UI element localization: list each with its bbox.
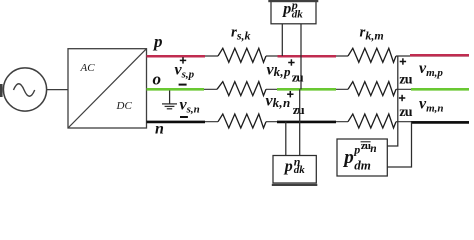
resistor r_km n-row zigzag [348,114,396,128]
AC source V1 circle [3,68,46,111]
wire p rail thin base [147,55,219,57]
wire p red overlay segment 3 [410,54,469,57]
gray bar bottom of Pdk^n [272,184,318,186]
svg-text:p: p [353,143,360,157]
load box Pdk^p [271,1,316,24]
converter diagonal [68,49,147,128]
svg-text:p: p [342,147,354,168]
svg-text:p: p [152,32,163,51]
svg-text:zu: zu [399,105,413,120]
svg-text:dk: dk [294,164,306,176]
svg-text:AC: AC [80,62,96,74]
svg-text:p: p [281,1,291,18]
svg-text:dk: dk [292,9,304,21]
svg-text:zu: zu [293,102,305,117]
wire n black overlay segment 1 [147,121,206,124]
ground stub wire [169,91,171,104]
svg-text:vk,n: vk,n [266,93,291,111]
wire n black overlay segment 3 [411,121,469,124]
wire p red overlay segment 2 [278,55,337,58]
svg-text:o: o [153,70,162,89]
wire leg Pdk^p to p rail [281,24,283,56]
resistor r_km o-row zigzag [348,82,396,96]
wire source to converter [47,89,68,91]
resistor r_km p-row zigzag [348,48,396,62]
wire o green overlay segment 1 [147,88,205,91]
svg-text:n: n [370,143,376,155]
gray bar top of Pdk^p [268,0,318,2]
converter U1 box [68,49,147,128]
wire leg Pdm from p rail down [387,56,398,146]
wire o rail thin base [147,88,218,90]
svg-text:DC: DC [116,100,133,112]
plus sign v_kp [288,62,294,64]
wire leg Pdk^n to o rail crossing n [299,89,301,155]
wire leg Pdk^p to o rail crossing p [300,24,302,89]
wire n rail thin base [147,121,219,123]
plus sign v_mp [400,61,406,63]
minus sign v_sp [179,84,187,86]
wire o green overlay segment 3 [411,88,469,91]
minus sign v_sn [180,116,188,118]
plus sign v_sp [180,60,186,62]
svg-text:zu: zu [399,73,413,88]
plus sign v_kn [287,93,293,95]
wire n black overlay segment 2 [277,121,336,124]
wire p red overlay segment 1 [147,55,206,58]
load box Pdk^n [273,156,316,184]
plus sign v_mn [399,97,405,99]
wire leg Pdm from n rail down [387,122,411,167]
gray clipped bar at left edge [0,84,3,97]
resistor r_sk p-row zigzag [218,48,266,62]
resistor r_sk n-row zigzag [218,114,266,128]
wire leg Pdk^n to n rail [285,122,287,156]
AC source sine symbol [14,84,35,97]
svg-text:vk,p: vk,p [267,62,291,80]
load box Pdm^p [337,139,387,176]
resistor r_sk o-row zigzag [217,82,266,96]
ground symbol [162,103,177,105]
svg-text:zu: zu [292,69,304,84]
wire o green overlay segment 2 [277,88,336,91]
svg-text:dm: dm [354,158,371,173]
svg-text:p: p [283,158,293,175]
